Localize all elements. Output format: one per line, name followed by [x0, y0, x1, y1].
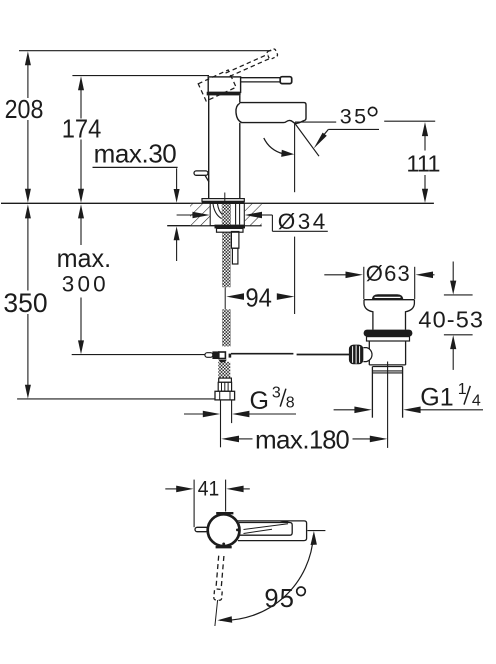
drain valve knob connector [363, 348, 372, 362]
dimension G3/8 arrows [184, 411, 296, 418]
pop-up linkage clamp [205, 351, 231, 362]
drain tailpipe [372, 367, 402, 418]
dimension G1 1/4 arrows [334, 407, 483, 414]
top view lever shading lines [244, 524, 289, 530]
water stream vertical line upper [294, 123, 296, 192]
pop-up rod lower block [232, 248, 238, 264]
drain valve knurled knob [349, 345, 364, 365]
dashed lever swung position side 1 [221, 556, 224, 589]
svg-text:300: 300 [62, 272, 106, 297]
horizontal pop-up rod segment 2 [297, 354, 349, 356]
svg-text:350: 350 [3, 288, 47, 318]
top view lever outline [239, 523, 292, 536]
drain valve body [369, 341, 405, 367]
35 degree leader line [328, 128, 379, 130]
hose crimp collar [218, 382, 231, 391]
svg-text:G: G [250, 387, 269, 415]
hose tube left edge / max180 extension [220, 400, 222, 447]
G3/8 nut [215, 391, 235, 400]
dimension max.300 [57, 204, 112, 354]
svg-text:1: 1 [458, 381, 467, 398]
hose end white band [219, 378, 232, 382]
mounting nut [217, 228, 244, 232]
arc top arrowhead [311, 531, 317, 545]
top view screw dots [236, 529, 239, 532]
dimension max.30 [93, 138, 180, 261]
35 degree horizontal line at spout tip [295, 121, 336, 123]
dashed lever swung position side 2 [216, 556, 219, 589]
drain valve cap [372, 294, 404, 299]
dimension 41 [165, 477, 250, 501]
faucet body right edge upper [239, 95, 241, 102]
mounting hole walls [209, 203, 211, 225]
base flange gasket band [202, 201, 245, 203]
dimension 40-53 [418, 262, 483, 370]
drain valve seal ring [364, 330, 413, 337]
svg-text:111: 111 [406, 151, 440, 177]
base flange [202, 199, 244, 202]
spout-body fillet curve [236, 103, 242, 123]
pop-up rod knob behind faucet [194, 171, 208, 175]
drain centerline [387, 362, 389, 448]
label 95 degrees [264, 585, 305, 613]
svg-text:max.180: max.180 [255, 424, 350, 454]
dashed lever raised position line 1 [226, 54, 268, 73]
label G3/8 [250, 384, 295, 415]
countertop hatching right [245, 204, 262, 225]
svg-text:208: 208 [5, 96, 44, 124]
svg-text:3: 3 [272, 384, 281, 401]
mounting washer dark band [215, 225, 246, 229]
svg-text:max.: max. [57, 243, 112, 273]
svg-text:4: 4 [472, 393, 481, 410]
cartridge housing [208, 77, 240, 93]
pop-up rod upper block [231, 232, 239, 249]
dimension 174 extension line [72, 75, 209, 77]
countertop top line [1, 202, 434, 204]
dashed lever swung cap [214, 589, 223, 601]
top view pop-up rod tab [195, 527, 208, 531]
svg-text:94: 94 [245, 283, 272, 313]
dimension 94 [226, 283, 294, 313]
svg-text:40-53: 40-53 [418, 306, 483, 332]
braided hose lower section [222, 309, 231, 346]
111 top extension line [384, 120, 435, 122]
svg-text:95: 95 [264, 585, 294, 613]
drain valve flange [364, 300, 414, 330]
svg-text:max.30: max.30 [94, 138, 177, 168]
pop-up rod knob diagonal [205, 175, 209, 182]
svg-text:41: 41 [198, 477, 220, 501]
faucet centerline above counter [224, 193, 226, 204]
arc bottom arrowhead [217, 616, 232, 623]
95 degree horizontal extension line [307, 530, 325, 532]
horizontal pop-up rod segment 1 [231, 353, 293, 355]
hose tube right edge [231, 400, 233, 423]
water stream vertical line lower [294, 237, 296, 314]
max.300 bottom reference line / horizontal rod left part [72, 354, 205, 356]
top view circle bottom flat [216, 546, 232, 548]
35 degree leader arrowhead [314, 133, 327, 149]
dimension Ø34 leader [177, 209, 328, 234]
top view circle top flat [216, 512, 233, 514]
dimension 350 [3, 204, 47, 398]
dimension O63 [324, 261, 434, 286]
spout outline [240, 103, 306, 124]
dashed lever end cap [266, 48, 278, 59]
faucet body right edge lower [239, 123, 241, 199]
top view faucet body circle [208, 514, 240, 546]
water flow curved arrow [264, 138, 283, 154]
cartridge bottom thick band [207, 92, 241, 96]
dimension 174 [62, 76, 102, 203]
countertop bottom line [167, 225, 262, 227]
top reference line [19, 50, 271, 52]
svg-text:G1: G1 [420, 384, 453, 412]
braided hose below clamp [218, 362, 230, 378]
pop-up rod in mounting hole [235, 204, 237, 225]
dashed lever raised position line 2 [230, 58, 272, 77]
dashed cartridge tilted outline [198, 70, 236, 101]
hose curve in mounting hole [213, 204, 222, 219]
svg-text:Ø34: Ø34 [278, 209, 326, 234]
countertop hatching left [190, 204, 210, 225]
dimension 208 [5, 51, 44, 203]
faucet body left edge [208, 95, 210, 198]
dimension 111 [406, 122, 440, 203]
dimension O63 extension lines [363, 267, 365, 299]
lever arm bottom line [241, 81, 281, 83]
35 degree diagonal line [295, 123, 319, 156]
lever arm top line [241, 77, 281, 79]
95 degree arc [220, 535, 314, 620]
label G1 1/4 [420, 381, 481, 412]
top view spout outline [238, 521, 307, 541]
svg-text:Ø63: Ø63 [366, 261, 410, 286]
svg-text:8: 8 [286, 395, 295, 412]
braided hose upper section [222, 232, 231, 287]
centerline in hose break [224, 287, 226, 309]
350 bottom reference line [17, 398, 215, 400]
dimension max.180 [221, 424, 387, 454]
lever axis extension line [215, 600, 218, 626]
braided hose in mounting hole [222, 204, 231, 226]
dimension 41 extension lines [193, 480, 195, 528]
lever end cap [280, 77, 292, 84]
label 35 degrees [340, 104, 377, 128]
dimension 40-53 extension lines [444, 294, 473, 296]
drain valve washer [367, 337, 410, 341]
